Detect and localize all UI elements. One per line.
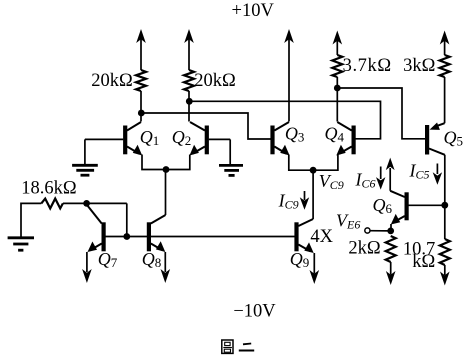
transistor Q6 <box>390 191 445 225</box>
svg-text:3kΩ: 3kΩ <box>403 56 435 76</box>
wire VC9 to Q9 collector <box>312 170 314 219</box>
arrow R6 to -10V <box>386 262 396 285</box>
wire R2 bottom to Q2 collector <box>188 91 190 122</box>
transistor Q9 <box>294 219 313 253</box>
node dot R2/Q4-base <box>186 98 193 105</box>
wire left of R5 down to ground <box>21 203 41 237</box>
caption 圖 (drawn strokes) <box>222 340 233 353</box>
wire R3 bottom to Q4 collector <box>336 77 338 122</box>
caption 二 (drawn strokes) <box>239 344 254 351</box>
supply arrow above R4 <box>440 31 450 56</box>
svg-text:20kΩ: 20kΩ <box>91 71 133 91</box>
Q2 emitter wire <box>166 155 190 170</box>
ground at R5 <box>8 238 34 250</box>
Q7 emitter arrow to -10V <box>82 252 92 283</box>
resistor R1 20k (left) <box>136 70 146 91</box>
svg-text:kΩ: kΩ <box>412 252 435 272</box>
Q9 emitter arrow to -10V <box>310 253 320 284</box>
current arrow IC5 <box>433 164 442 185</box>
ground at Q1 base <box>72 139 98 175</box>
wire Q5 collector down through Q6 base node to R7 <box>444 155 446 239</box>
resistor R4 3k <box>440 55 450 77</box>
wire R5 to bias node <box>63 202 127 204</box>
wire R3 node to Q5 base <box>337 88 425 139</box>
node dot base rail <box>123 233 130 240</box>
resistor R5 18.6k (horizontal) <box>41 199 63 209</box>
transistor Q5 (PNP) <box>425 123 445 155</box>
supply arrow above R3 <box>333 31 343 56</box>
node VC9 dot <box>310 167 317 174</box>
node dot VE6 <box>387 228 394 235</box>
Q3 emitter wire <box>289 155 313 171</box>
resistor R2 20k (right) <box>184 70 194 91</box>
wire Q2 collector node to Q4 base <box>189 101 380 139</box>
base rail Q7-Q8-Q9 <box>105 236 294 238</box>
svg-text:4X: 4X <box>310 227 333 247</box>
node dot R1/Q3-base <box>138 110 145 117</box>
VE6 terminal circle <box>365 228 370 233</box>
supply arrow above Q3 collector <box>284 29 294 122</box>
svg-text:3.7kΩ: 3.7kΩ <box>343 56 392 76</box>
svg-text:20kΩ: 20kΩ <box>194 71 236 91</box>
transistor Q7 <box>87 205 106 253</box>
supply arrow above R2 <box>184 29 194 70</box>
transistor Q2 <box>190 122 231 156</box>
svg-text:−10V: −10V <box>233 301 276 321</box>
Q1 emitter wire <box>142 155 166 170</box>
current arrow IC6 <box>376 167 385 190</box>
Q4 emitter wire <box>313 155 338 171</box>
wire tail to Q8 collector <box>165 170 167 216</box>
transistor Q4 <box>336 122 355 156</box>
wire R1 bottom to Q1 collector <box>140 91 142 122</box>
tail node dot <box>163 166 170 173</box>
wire VE6 terminal to node <box>370 230 391 232</box>
transistor Q3 <box>270 122 289 156</box>
ground at Q2 base <box>219 139 243 175</box>
node dot R3 bottom <box>334 85 341 92</box>
resistor R6 2k <box>386 236 396 262</box>
resistor R7 10.7k <box>440 239 450 265</box>
resistor R3 3.7k <box>332 55 342 77</box>
arrow R7 to -10V <box>440 265 450 286</box>
supply arrow above R1 <box>136 29 146 70</box>
svg-text:+10V: +10V <box>232 1 275 21</box>
Q8 emitter arrow to -10V <box>161 252 171 283</box>
wire bias node down to base rail <box>126 203 128 236</box>
Q6 emitter to VE6 node <box>390 224 392 231</box>
transistor Q1 <box>85 122 142 156</box>
node dot Q6 base <box>441 202 448 209</box>
node dot bias <box>83 200 90 207</box>
wire R4 bottom to Q5 emitter <box>444 77 446 123</box>
wire Q1 collector node to Q3 base <box>141 113 270 139</box>
svg-text:18.6kΩ: 18.6kΩ <box>21 178 76 198</box>
transistor Q8 <box>147 215 166 252</box>
current arrow IC9 <box>300 191 309 210</box>
svg-text:2kΩ: 2kΩ <box>348 238 380 258</box>
supply arrow Q6 collector <box>386 158 395 191</box>
